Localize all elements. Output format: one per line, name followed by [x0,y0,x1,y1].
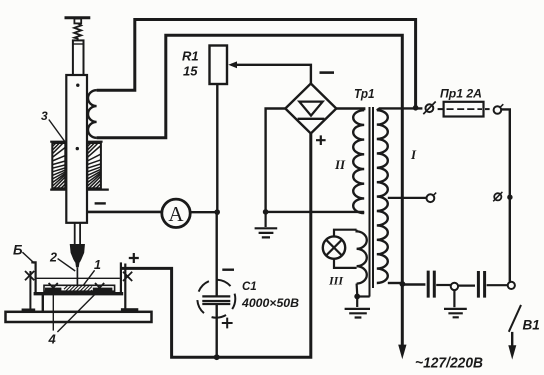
wire: fuse output down right side [501,109,510,281]
svg-text:Б: Б [13,243,23,258]
C1 bottom lead [215,304,217,357]
engraver: main rod (armature) [66,75,87,223]
wire: III bottom to ground node [356,284,359,295]
clamp x-mark left wall [25,271,34,280]
wire: R1 wiper arrow from bridge minus [231,65,311,84]
svg-text:С1: С1 [242,281,257,293]
wire: core to ground node [357,295,370,297]
filter capacitor right [458,285,475,287]
filter capacitor left [428,271,434,298]
resistor R1 (rheostat body) [210,46,228,85]
svg-text:А: А [168,202,184,226]
label plus at bridge output [316,135,326,145]
svg-text:2: 2 [49,251,57,265]
wire: primary bottom lead to mains junction [388,282,401,284]
engraver: needle electrode [76,267,78,286]
node: junction dot at fuse/primary-top net [413,105,419,111]
svg-text:В1: В1 [523,318,540,333]
capacitor C1 electrolytic (dashed circle case) [197,280,235,318]
diode symbol inside bridge [299,102,322,116]
wire: engraver electrode (minus) to ammeter [87,211,162,214]
stand rods [29,271,31,312]
socket terminal after fuse [494,106,502,114]
engraver: upper rod (narrow cylinder) [73,40,84,75]
socket terminal 127V [427,194,435,202]
stand base plate [6,312,152,322]
label plus at bath anode [129,253,139,263]
wire: secondary II bottom lead [266,211,365,213]
wire: filter row left [404,283,425,285]
transformer winding I (primary) [377,110,388,283]
terminal circle at switch side [508,282,515,289]
node: junction dot mains line / primary bottom / filter [400,281,406,287]
bridge rectifier (diamond) [285,84,336,134]
wire: engraver coil top lead to mains/fuse node (top loop) [97,20,416,106]
guide frame right block (hatched) [87,143,101,188]
mains plug arrow left (~127/220V) [398,345,406,360]
svg-text:Тр1: Тр1 [354,87,375,101]
wire: 127V tap lead [388,197,426,199]
plug pin symbol at fuse input [426,104,434,112]
svg-text:R1: R1 [182,49,199,64]
wire: engraver coil bottom lead to mains line (inner loop, down to plug arrow) [97,35,403,347]
bath tank (B): walls and bottom [31,262,35,292]
wire: bridge right AC terminal to secondary II top [336,109,364,111]
transformer winding III (lamp winding) [357,230,367,284]
label minus above C1 [222,269,234,271]
ground symbol under transformer [356,297,358,308]
ground symbol at filter midpoint [453,290,455,307]
engraver: spring [74,23,81,40]
switch V1 blade [509,305,521,332]
svg-text:~127/220В: ~127/220В [415,355,483,372]
clamp x-mark right wall [123,272,132,281]
mains plug arrow right [511,332,513,348]
svg-text:4: 4 [48,332,57,347]
label minus at electrode wire [95,202,106,204]
engraver: collet chuck (2) [70,245,84,262]
plug pin symbol at 220V position [494,193,501,200]
engraver: lower shaft [75,223,80,245]
svg-text:1: 1 [94,258,101,272]
node: junction dot ammeter/R1/C1 [214,209,220,215]
ammeter A [162,199,190,227]
svg-text:III: III [328,274,344,288]
fuse Pr1 2A [438,108,443,110]
svg-text:4000×50В: 4000×50В [241,296,299,310]
transformer Tr1 winding II (secondary) [353,110,364,213]
C1 plates [202,295,230,297]
terminal circle at filter midpoint [451,283,458,290]
node: junction dot C1 plus on bottom wire [214,354,220,360]
C1 top lead [215,212,217,297]
svg-text:15: 15 [183,64,198,79]
ground symbol at bridge AC / II bottom [265,212,267,227]
coil (solenoid) on rod [88,90,97,138]
wire: R1 bottom lead down to ammeter node [216,84,218,212]
x-marks on plate [49,283,58,292]
wire: ammeter to R1/C1 node [190,211,217,213]
electrolyte level line [36,277,120,279]
svg-text:I: I [410,147,417,162]
label plus below C1 [222,318,233,329]
engraver: fixed support bar [65,16,91,19]
wire: primary top lead to fuse node [377,108,423,110]
indicator lamp [323,236,345,258]
transformer core [369,107,371,297]
svg-text:II: II [334,157,346,172]
lamp bottom lead to III tap [334,259,357,268]
guide frame left block (hatched) [52,143,65,188]
engraver: clevis hook [74,19,81,24]
node: dot on right line at 220V plug [507,195,512,200]
node: junction dot secondary II bottom / ground [263,209,269,215]
svg-text:3: 3 [41,109,48,123]
node: junction dot III/core/ground [354,294,360,300]
wire: bridge plus output down and along bottom to bath/C1 [121,134,311,358]
stand leg [42,295,44,312]
workpiece plate (1) in bath [44,285,115,291]
svg-text:Пр1 2А: Пр1 2А [440,87,482,101]
wire: bridge left AC terminal down to chassis node [266,109,286,212]
lamp top lead to III top [334,230,357,237]
label minus at bridge output [320,71,335,74]
